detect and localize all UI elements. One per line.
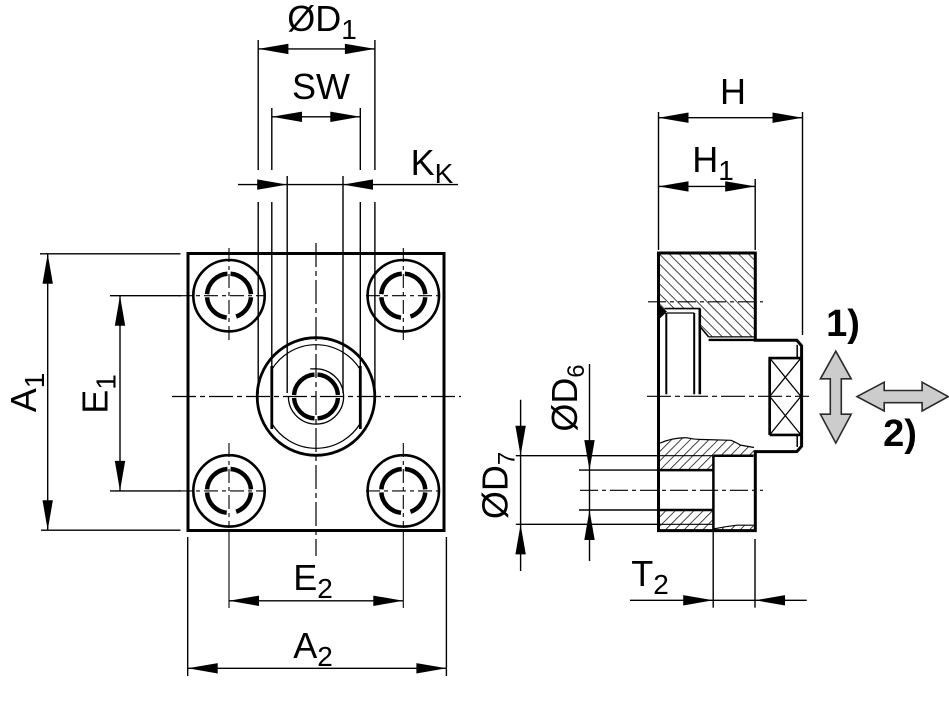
dimension H line xyxy=(659,117,803,119)
D7 extension through body top xyxy=(659,455,714,457)
main center line side view xyxy=(647,395,809,397)
counterbore right wall xyxy=(693,313,695,394)
hatch lower band right sliver xyxy=(713,440,754,456)
bolt hole bottom-right inner arc xyxy=(381,469,425,513)
hatch lower band left (between break line and D6 hole) xyxy=(659,438,713,470)
bolt hole top-left outer xyxy=(193,260,264,331)
chamfer inner vertical line lower xyxy=(796,435,798,447)
plate outline front view xyxy=(188,254,444,531)
hatch band below D6 hole xyxy=(659,510,713,531)
thread major arc KK xyxy=(288,369,343,424)
D6 hole top edge xyxy=(659,469,714,472)
hex flat left SW xyxy=(270,366,273,429)
bolt top-right center lines xyxy=(402,248,404,343)
SIDE VIEW GROUP xyxy=(580,253,809,531)
D7 counterbore wall xyxy=(712,456,715,531)
dimension A1 extension lines xyxy=(40,253,181,255)
dimension A1 line xyxy=(47,254,49,530)
dimension SW line xyxy=(272,116,361,118)
boss chamfer arc top xyxy=(272,345,360,370)
dimension D7 line xyxy=(520,400,522,571)
counterbore chamfer triangle xyxy=(660,305,667,319)
hatch upper block xyxy=(660,254,754,337)
bearing box diagonals xyxy=(770,358,801,396)
D7 lower silhouette line xyxy=(659,523,714,525)
dimension E2 line xyxy=(229,600,403,602)
dimension E1 line xyxy=(119,296,121,491)
bolt hole bottom-right outer xyxy=(368,455,439,526)
dimension D6 line xyxy=(589,364,591,561)
dimension H1 line xyxy=(659,185,756,187)
bolt top-left center lines xyxy=(228,248,230,343)
dimension SW extension lines xyxy=(271,108,273,170)
dimension OD1 extension lines xyxy=(257,40,259,170)
svg-text:1): 1) xyxy=(826,303,860,345)
dimension KK line xyxy=(238,184,458,186)
dimension KK extension lines xyxy=(286,176,288,393)
counterbore left wall xyxy=(665,313,667,394)
dimension H1 extension line xyxy=(754,179,756,250)
dimension E1 extension lines xyxy=(110,295,181,297)
dimension A2 line xyxy=(188,667,447,669)
boss chamfer arc bottom xyxy=(272,424,360,449)
bearing box rect xyxy=(770,358,801,435)
body outline xyxy=(659,253,802,531)
dimension A2 extension lines xyxy=(187,537,189,676)
grey vertical double arrow 1) xyxy=(820,351,851,443)
thread minor circle KK xyxy=(294,375,338,419)
recess top line xyxy=(709,336,754,338)
main horizontal center line xyxy=(172,396,461,398)
GREY ARROWS GROUP xyxy=(820,351,948,443)
bolt hole top-right outer xyxy=(368,260,439,331)
grey horizontal double arrow 2) xyxy=(857,382,948,411)
bolt bottom-right center lines xyxy=(402,443,404,528)
FRONT VIEW GROUP xyxy=(172,243,461,608)
D7 counterbore ceiling xyxy=(713,454,753,457)
counterbore mouth lower line xyxy=(667,312,694,314)
dimension D6 extension lines xyxy=(579,469,659,471)
recess bottom step line xyxy=(709,339,754,341)
hex flat right SW xyxy=(359,366,362,429)
counterbore mouth upper line xyxy=(665,308,701,310)
bolt hole top-left inner arc xyxy=(207,274,251,318)
bolt hole top-right inner arc xyxy=(381,274,425,318)
D7 counterbore floor wavy xyxy=(713,525,753,529)
DIMENSIONS GROUP xyxy=(40,40,807,676)
D6 hole bottom edge xyxy=(659,509,714,512)
dimension T2 extension lines xyxy=(712,532,714,608)
chamfer inner vertical line upper xyxy=(796,345,798,358)
dimension OD1 line xyxy=(258,48,375,50)
main vertical center line xyxy=(315,243,317,556)
lower bolt center line xyxy=(580,489,763,491)
dimension H extension lines xyxy=(658,112,660,250)
svg-text:SW: SW xyxy=(292,66,350,107)
bolt hole bottom-left outer xyxy=(193,455,264,526)
chamfer diagonal to recess xyxy=(700,327,709,337)
top bolt center line xyxy=(648,301,763,303)
central boss outer circle xyxy=(257,338,375,456)
dimension D7 extension lines xyxy=(516,455,659,457)
bolt bottom-left center lines xyxy=(228,443,230,528)
svg-text:H: H xyxy=(720,71,746,112)
hatch bottom strip right xyxy=(713,525,754,530)
dimension T2 line xyxy=(630,599,807,601)
bolt hole bottom-left inner arc xyxy=(207,469,251,513)
break-out wavy line xyxy=(659,438,754,448)
svg-text:2): 2) xyxy=(883,413,917,455)
counterbore right outer wall xyxy=(698,309,701,395)
